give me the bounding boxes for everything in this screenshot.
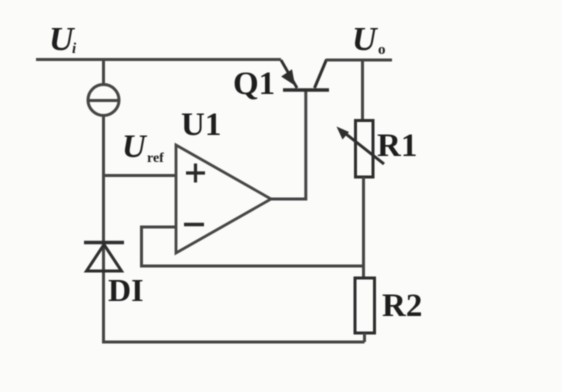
svg-text:ref: ref bbox=[147, 151, 164, 166]
wire op-amp - input bbox=[142, 227, 177, 266]
wire output rail to R1 bbox=[361, 60, 364, 121]
label Ui bbox=[49, 21, 77, 58]
svg-text:U: U bbox=[122, 129, 148, 165]
resistor R1 (adjustable) bbox=[337, 121, 385, 178]
current source I1 bbox=[88, 85, 119, 116]
svg-text:R2: R2 bbox=[382, 288, 422, 324]
wire op-amp output bbox=[271, 198, 307, 201]
wire feedback to R1/R2 junction bbox=[140, 265, 364, 268]
wire bottom rail bbox=[102, 341, 365, 344]
wire op-amp output to Q1 base bbox=[304, 90, 307, 201]
wire input rail to current source bbox=[102, 60, 105, 87]
wire input rail bbox=[36, 58, 281, 61]
svg-text:DI: DI bbox=[108, 272, 144, 308]
wire R2 to bottom rail bbox=[363, 333, 366, 342]
svg-text:U: U bbox=[352, 21, 379, 58]
diode DI bbox=[84, 243, 124, 272]
wire op-amp + input bbox=[102, 174, 176, 177]
label Uref bbox=[122, 129, 164, 166]
op-amp U1 bbox=[176, 145, 271, 253]
wire current source to diode (left branch) bbox=[102, 114, 105, 243]
wire diode to bottom rail bbox=[102, 243, 105, 342]
wire R1 to R2 bbox=[362, 177, 365, 279]
svg-text:R1: R1 bbox=[377, 128, 417, 164]
svg-text:U1: U1 bbox=[181, 107, 221, 143]
svg-text:Q1: Q1 bbox=[233, 66, 275, 102]
svg-text:o: o bbox=[378, 42, 386, 58]
wire output rail bbox=[326, 59, 392, 62]
label Uo bbox=[352, 21, 386, 58]
transistor Q1 bbox=[281, 60, 329, 91]
resistor R2 bbox=[355, 278, 375, 333]
